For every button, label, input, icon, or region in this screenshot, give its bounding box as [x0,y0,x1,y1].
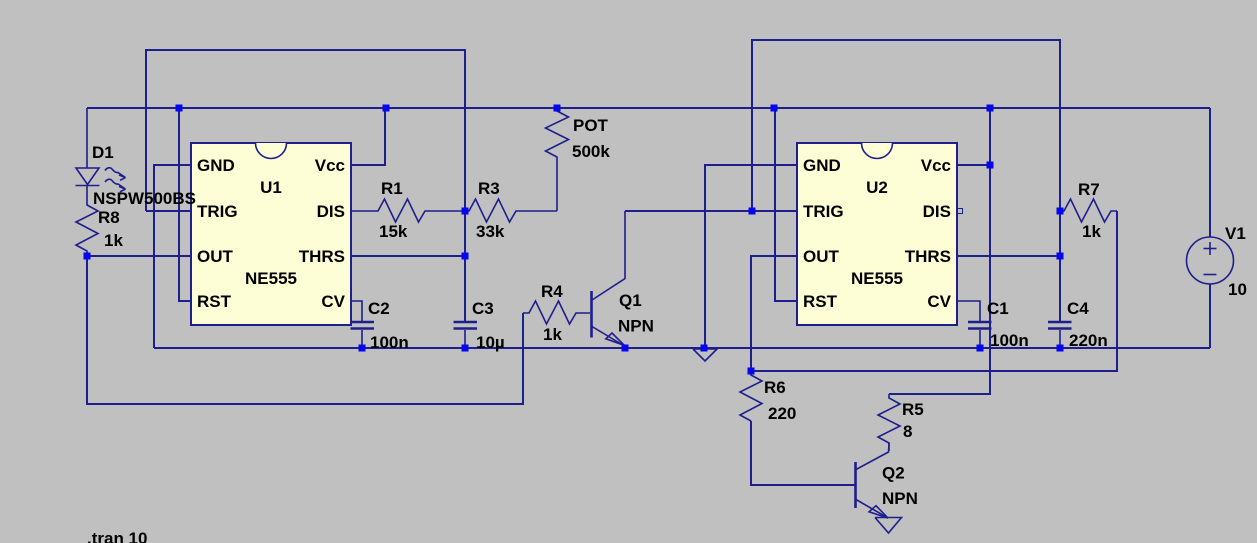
junction (557,108) [554,105,561,112]
svg-text:V1: V1 [1225,224,1246,243]
svg-text:DIS: DIS [317,202,345,221]
wire U2 OUT down to R6 node [751,256,797,371]
wire U2 GND to ground [705,165,797,348]
svg-text:POT: POT [573,116,609,135]
resistor R3 [465,199,557,222]
IC U1 NE555 [191,143,351,325]
junction (465,256) [462,253,469,260]
svg-text:Vcc: Vcc [921,156,951,175]
svg-text:R6: R6 [764,378,786,397]
svg-text:CV: CV [321,292,345,311]
wire U1 TRIG stub [146,210,191,212]
svg-text:NPN: NPN [618,317,654,336]
svg-text:C4: C4 [1067,299,1089,318]
wire V+ top rail [87,107,1210,109]
resistor R5 [878,394,900,451]
junction (751,371) [748,368,755,375]
svg-text:R7: R7 [1078,180,1100,199]
svg-text:NPN: NPN [882,489,918,508]
wire U1 Vcc to rail [351,108,385,165]
svg-text:D1: D1 [92,143,114,162]
wire U2 THRS line [957,255,1060,257]
svg-text:1k: 1k [104,231,123,250]
svg-text:NE555: NE555 [245,269,297,288]
svg-text:RST: RST [197,292,232,311]
svg-text:GND: GND [197,156,235,175]
wire U1 OUT loop to R4 [87,256,523,404]
ground symbol near U2 [693,349,717,361]
svg-text:THRS: THRS [299,247,345,266]
svg-text:R4: R4 [541,282,563,301]
junction (465,211) [462,208,469,215]
svg-text:TRIG: TRIG [197,202,238,221]
transistor Q2 [856,443,890,518]
junction (179,108) [176,105,183,112]
svg-text:Q1: Q1 [619,291,642,310]
junction (86,256) [84,253,91,260]
junction (704,348) [701,345,708,352]
svg-text:15k: 15k [379,222,408,241]
capacitor C2 [351,301,375,348]
svg-text:C3: C3 [472,299,494,318]
svg-text:CV: CV [927,292,951,311]
wire R6 bottom to Q2 base [751,421,855,485]
IC U2 NE555 [797,143,957,325]
svg-text:R3: R3 [478,179,500,198]
junction (752,211) [749,208,756,215]
wire U1 RST to rail [179,108,191,301]
svg-text:1k: 1k [1082,222,1101,241]
svg-text:GND: GND [803,156,841,175]
svg-text:TRIG: TRIG [803,202,844,221]
svg-text:500k: 500k [572,142,610,161]
voltage source V1 [1187,108,1234,348]
svg-text:100n: 100n [370,333,409,352]
svg-text:DIS: DIS [923,202,951,221]
svg-text:C2: C2 [368,299,390,318]
svg-text:THRS: THRS [905,247,951,266]
svg-text:100n: 100n [990,331,1029,350]
transistor Q1 [592,211,626,346]
resistor R6 [740,371,762,421]
wire U1 OUT stub [87,255,191,257]
svg-text:33k: 33k [476,222,505,241]
junction (465,348) [462,345,469,352]
svg-text:OUT: OUT [197,247,234,266]
svg-text:8: 8 [903,422,912,441]
svg-text:U2: U2 [866,178,888,197]
junction (990,108) [987,105,994,112]
svg-text:1k: 1k [543,325,562,344]
svg-text:NSPW500BS: NSPW500BS [93,189,196,208]
svg-text:10: 10 [1228,280,1247,299]
diode D1 LED [76,108,126,192]
svg-text:.tran 10: .tran 10 [87,529,147,543]
svg-text:220n: 220n [1069,331,1108,350]
wire U2 TRIG line from Q1 collector [625,210,797,212]
junction (1060,256) [1057,253,1064,260]
junction (990,165) [987,162,994,169]
svg-text:Vcc: Vcc [315,156,345,175]
svg-text:RST: RST [803,292,838,311]
junction (1060,211) [1057,208,1064,215]
capacitor C1 [957,301,992,348]
resistor R7 [1060,199,1117,222]
wire U2 RST to rail [775,108,797,301]
wire R7 right column to R6 node [751,211,1117,371]
wire U2 top loop [752,40,1060,322]
svg-text:R5: R5 [902,400,924,419]
svg-text:220: 220 [768,404,796,423]
junction (625,348) [622,345,629,352]
wire U1 THRS line [351,255,465,257]
resistor R1 [351,199,465,222]
wire U1 feedback loop TRIG to THRS/C3 column [146,50,465,322]
wire Vcc column down to R5 [889,108,990,394]
junction (774,108) [771,105,778,112]
unconnected pin DIS U2 [958,209,963,214]
resistor POT [546,108,569,211]
junction (362,348) [359,345,366,352]
svg-text:U1: U1 [260,178,282,197]
svg-text:10µ: 10µ [476,333,505,352]
junction (980,348) [977,345,984,352]
capacitor C3 [454,322,478,348]
svg-text:Q2: Q2 [882,464,905,483]
svg-text:OUT: OUT [803,247,840,266]
svg-text:R1: R1 [381,179,403,198]
svg-text:NE555: NE555 [851,269,903,288]
resistor R4 [523,301,590,324]
resistor R8 [76,186,98,256]
wire U2 Vcc stub [957,164,990,166]
junction (386,108) [383,105,390,112]
ground symbol at Q2 emitter [875,518,902,534]
svg-text:R8: R8 [98,208,120,227]
junction (1060,348) [1057,345,1064,352]
wire ground rail [154,347,1210,349]
wire U1 GND down to ground rail [154,165,191,348]
svg-text:C1: C1 [987,299,1009,318]
capacitor C4 [1048,322,1072,348]
